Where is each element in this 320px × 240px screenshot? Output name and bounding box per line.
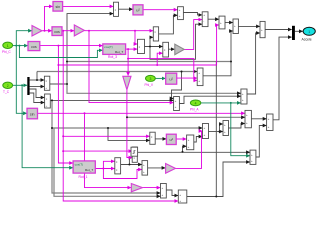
wire S3 to T3: [148, 167, 166, 169]
gain T4: [131, 184, 142, 192]
wire vertical x63.2 to S5 in2: [63, 31, 178, 201]
block u2_2: [166, 73, 177, 84]
wire Phi_A to V1 in3: [201, 102, 241, 104]
wire V1 out to S9 in2: [247, 33, 260, 94]
svg-text:+: +: [251, 153, 253, 157]
wire bus y58.6 to M1 in3: [128, 59, 197, 81]
wire A to B: [183, 13, 202, 15]
wire Rot_1 to P2 in2: [95, 168, 114, 170]
svg-text:×: ×: [116, 168, 118, 172]
svg-text:×: ×: [45, 79, 47, 83]
wire P4 out to V4 in1: [138, 151, 250, 153]
inport Phi_A: [190, 100, 201, 111]
wire branch x84.5 to T4: [85, 113, 131, 187]
gain T5: [175, 44, 184, 55]
svg-text:1: 1: [7, 44, 9, 48]
junction dots: [44, 30, 159, 170]
svg-text:+: +: [175, 99, 177, 103]
wire branch up to sin1: [45, 6, 53, 30]
block M2 sum: [174, 97, 180, 111]
svg-text:sin: sin: [30, 112, 35, 116]
svg-text:Rot_T: Rot_T: [115, 50, 123, 54]
wire Rot_1 branch to S3 in2: [103, 169, 141, 179]
svg-text:cos(T): cos(T): [104, 45, 113, 49]
wire V4 out to V3 in2: [256, 126, 266, 158]
block V2 sum: [245, 110, 251, 127]
svg-text:+: +: [143, 170, 145, 174]
svg-text:1: 1: [308, 30, 310, 34]
demux: [27, 77, 29, 95]
svg-text:×: ×: [154, 30, 156, 34]
wire branch x89 down to M2 in3: [89, 31, 173, 103]
svg-text:Phi_A: Phi_A: [190, 107, 199, 111]
subsystem Rot_1: [73, 161, 95, 179]
wire bus y136.3 to P3 in1: [63, 135, 149, 137]
wire D to T5: [169, 48, 175, 50]
svg-text:Rot_3: Rot_3: [108, 55, 117, 59]
tiny port marks inside white blocks: [45, 8, 269, 203]
wire branch x58.4 to Rot_1 in1: [58, 46, 72, 163]
wire S7 out to S8 in2: [209, 131, 223, 133]
block P3 product: [150, 132, 155, 144]
block D2 sum: [233, 19, 238, 34]
svg-text:cos: cos: [54, 30, 60, 34]
wire Phi_V to u2_2: [155, 77, 165, 79]
svg-text:+: +: [268, 117, 270, 121]
wire S5 out up to bus61.5: [187, 62, 217, 197]
svg-text:+: +: [246, 121, 248, 125]
svg-text:+: +: [198, 71, 200, 75]
svg-text:×: ×: [133, 156, 135, 160]
block V4 sum: [250, 150, 256, 164]
svg-text:×: ×: [151, 135, 153, 139]
svg-text:T_C: T_C: [3, 90, 10, 94]
block S8 sum: [223, 121, 229, 136]
svg-text:+: +: [179, 8, 181, 12]
wire S9 to mux: [265, 29, 292, 31]
wire demux to G in1: [30, 89, 45, 98]
wire T3 to S7 in2: [176, 131, 203, 168]
svg-text:×: ×: [116, 160, 118, 164]
svg-text:Accele: Accele: [302, 37, 312, 41]
wire Rot_1 branch to P2 in1: [103, 161, 114, 168]
svg-text:×: ×: [46, 97, 48, 101]
wire S5 branch to V4 in3: [216, 162, 249, 197]
inport Phi_C: [2, 42, 13, 54]
wire branch down to sin2: [16, 46, 26, 114]
wire T5 to B in2: [184, 20, 202, 50]
svg-text:2: 2: [7, 84, 9, 88]
wire S6 out to S7 in3: [194, 137, 202, 143]
wire The_C to demux: [12, 84, 27, 86]
wire P3 to u2_3: [155, 138, 166, 140]
wire vertical x52 G down: [52, 100, 160, 193]
svg-text:+: +: [198, 79, 200, 83]
block M1 sum: [197, 68, 203, 86]
block UD unit delay: [131, 147, 138, 156]
wire branch x135 to E in1: [135, 31, 137, 44]
wire stub to S8 in1: [220, 124, 223, 132]
svg-text:+: +: [261, 28, 263, 32]
block D product: [163, 42, 169, 57]
wire V3 out to mux in2: [273, 37, 292, 120]
wire TD out to P4 in2: [127, 90, 132, 158]
svg-text:4: 4: [195, 101, 197, 105]
wire branch up to T1: [16, 31, 31, 46]
svg-text:+: +: [162, 193, 164, 197]
wire M2 out to V1 in2: [179, 96, 240, 103]
wire P1 to u2_1: [119, 8, 133, 10]
svg-text:+: +: [234, 24, 236, 28]
svg-text:sin: sin: [55, 5, 60, 9]
block V1 sum: [241, 89, 247, 104]
wire T4 to S4 in1: [143, 187, 161, 189]
block cos2: [52, 27, 62, 36]
block S6 sum: [187, 135, 194, 150]
block P2 product: [115, 158, 121, 174]
wire demux to F in2: [30, 86, 44, 88]
wire branch to V4 in2: [231, 103, 250, 156]
unit delay symbol: [133, 151, 136, 154]
inport Phi_V: [145, 75, 156, 87]
svg-text:+: +: [268, 125, 270, 129]
wire bus y117.3 to V2: [127, 116, 245, 118]
wire branch to Rot_3 in2: [19, 46, 102, 58]
svg-text:+: +: [246, 113, 248, 117]
wire E branch to C in2: [150, 37, 153, 46]
wire Rot_3 to E in2: [126, 48, 138, 50]
wire D2 to S9: [238, 25, 259, 27]
svg-text:Phi_C: Phi_C: [2, 50, 11, 54]
wire sin1 to P1: [63, 5, 114, 7]
gain T3: [166, 164, 176, 174]
wire demux to G in2: [30, 93, 45, 103]
svg-text:+: +: [242, 98, 244, 102]
svg-text:+: +: [204, 126, 206, 130]
inport The_C: [3, 82, 13, 94]
wire branch to D in2: [157, 53, 162, 65]
block P1 product: [114, 2, 119, 16]
wire T2 to C: [84, 30, 153, 32]
block C2 sum: [219, 16, 225, 29]
block C product: [153, 27, 158, 41]
svg-text:+: +: [162, 186, 164, 190]
svg-text:+: +: [220, 21, 222, 25]
block sin1: [53, 2, 63, 12]
gain TD (down): [123, 76, 131, 89]
wire branch x128 down to TD: [127, 49, 129, 75]
svg-text:+: +: [188, 145, 190, 149]
wire S4 to S5: [166, 190, 178, 196]
wire u2_2 to M1 in2: [177, 77, 197, 79]
svg-text:+: +: [143, 163, 145, 167]
wire bus128 branch to P3 in2: [108, 128, 150, 140]
block cos1: [28, 42, 40, 51]
svg-text:+: +: [188, 138, 190, 142]
wire C to A in2: [159, 15, 178, 34]
block u2_3: [166, 134, 176, 144]
wire B to C2: [208, 18, 219, 20]
block E product: [138, 39, 145, 53]
wire bus y151.1 to P4 in1: [63, 150, 132, 152]
svg-text:+: +: [204, 133, 206, 137]
wire demux to F in1: [30, 79, 44, 81]
wire F out up to P1 in2: [50, 14, 113, 84]
wire bus71 branch to M2 in1: [172, 72, 182, 99]
wire S8 out to V2 in3: [229, 124, 245, 129]
wire P4 branch to S6 in2: [183, 146, 187, 152]
mux: [292, 26, 295, 40]
wire V2 out to V3 in1: [251, 118, 266, 120]
svg-text:+: +: [224, 123, 226, 127]
svg-text:Phi_V: Phi_V: [145, 83, 154, 87]
svg-text:Rot_T: Rot_T: [85, 168, 93, 172]
wire P2 branch to P4 in2: [129, 158, 132, 165]
wire T1 to cos2: [42, 30, 52, 32]
svg-text:+: +: [203, 13, 205, 17]
wire bus y65 to C2 in2: [58, 25, 218, 65]
svg-text:+: +: [224, 130, 226, 134]
wire M1 out to D2 in2: [203, 31, 233, 76]
wire bus y196.3 to S4: [54, 128, 160, 196]
wire Phi_C to cos: [12, 45, 27, 47]
svg-text:+: +: [179, 14, 181, 18]
wire u2_3 to S6 in1: [176, 138, 186, 140]
svg-text:×: ×: [139, 45, 141, 49]
wire bus y61.5: [67, 61, 231, 63]
wire demux top to bus71: [36, 72, 38, 81]
wire bus y93.3 F to V1: [67, 84, 241, 93]
block S4 sum: [161, 184, 167, 199]
svg-text:+: +: [242, 92, 244, 96]
wire bus y128 to S7: [52, 127, 202, 129]
wire E branch to B in3: [150, 24, 202, 59]
wire sin2 to V2 in1: [38, 112, 245, 114]
svg-text:+: +: [251, 159, 253, 163]
subsystem Rot_3: [103, 44, 126, 59]
block S3 sum: [142, 161, 148, 176]
block A sum: [178, 7, 184, 20]
wire u2_1 to A: [143, 9, 177, 11]
outport Accel: [302, 27, 316, 41]
svg-text:Rot_1: Rot_1: [79, 175, 88, 179]
block S5 sum: [178, 190, 187, 203]
block V3 sum: [267, 114, 273, 131]
svg-text:×: ×: [115, 8, 117, 12]
block B sum: [202, 12, 208, 27]
wire C2 to D2: [225, 22, 233, 24]
wire cos to Rot_3: [40, 45, 103, 47]
svg-text:3: 3: [149, 77, 151, 81]
svg-text:cos(T): cos(T): [75, 162, 84, 166]
wire mux to Accel: [295, 30, 303, 32]
gain T1: [32, 26, 42, 37]
svg-text:+: +: [175, 105, 177, 109]
block S7 sum: [203, 124, 209, 139]
block G divide: [45, 94, 51, 108]
wire P2 out to S3: [121, 164, 142, 166]
block F divide: [44, 76, 49, 90]
wire bus y71.5 to M1: [37, 71, 197, 73]
wire G out to M2: [50, 99, 173, 101]
wire branch to Rot_1 in2: [22, 85, 73, 167]
block P4 product: [132, 147, 137, 162]
wire cos2 to T2: [62, 30, 74, 32]
svg-text:cos: cos: [31, 45, 37, 49]
gain T2: [74, 25, 84, 36]
svg-text:×: ×: [164, 48, 166, 52]
block u2_1: [133, 5, 143, 15]
block S9 sum: [260, 21, 265, 37]
svg-text:+: +: [179, 199, 181, 203]
svg-text:-: -: [203, 19, 204, 23]
block sin2: [27, 108, 38, 119]
wire E to D: [145, 46, 163, 48]
svg-text:+: +: [179, 193, 181, 197]
